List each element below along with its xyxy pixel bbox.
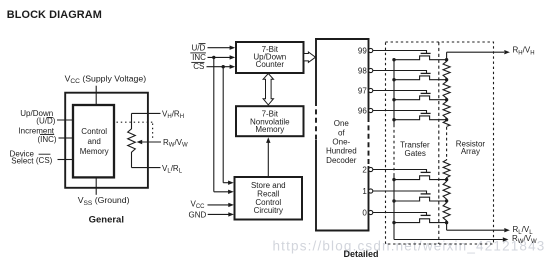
svg-text:2: 2 [362,165,367,174]
svg-text:Gates: Gates [405,149,426,158]
svg-text:Memory: Memory [255,125,284,134]
svg-text:CS: CS [193,62,204,71]
svg-text:Hundred: Hundred [326,147,357,156]
svg-text:Array: Array [461,147,480,156]
svg-text:(INC): (INC) [37,135,56,144]
svg-text:and: and [88,137,101,146]
svg-text:Detailed: Detailed [343,249,378,259]
svg-text:BLOCK DIAGRAM: BLOCK DIAGRAM [7,9,102,21]
svg-text:Control: Control [81,127,107,136]
svg-text:98: 98 [358,66,367,75]
svg-text:(CS): (CS) [36,156,53,165]
svg-text:One: One [334,119,350,128]
svg-text:96: 96 [358,106,367,115]
svg-text:Decoder: Decoder [326,156,357,165]
svg-text:One-: One- [332,138,350,147]
svg-text:(U/D): (U/D) [36,117,55,126]
svg-text:of: of [338,128,345,137]
svg-text:0: 0 [362,208,367,217]
svg-text:Circuitry: Circuitry [254,206,283,215]
svg-text:Select: Select [11,157,34,166]
svg-text:U/D: U/D [192,43,206,52]
svg-text:99: 99 [358,46,367,55]
svg-text:General: General [89,215,124,226]
svg-text:97: 97 [358,86,367,95]
svg-text:INC: INC [192,53,206,62]
svg-text:Memory: Memory [80,147,109,156]
svg-text:Counter: Counter [256,60,285,69]
svg-text:1: 1 [362,187,367,196]
svg-text:GND: GND [189,210,207,219]
